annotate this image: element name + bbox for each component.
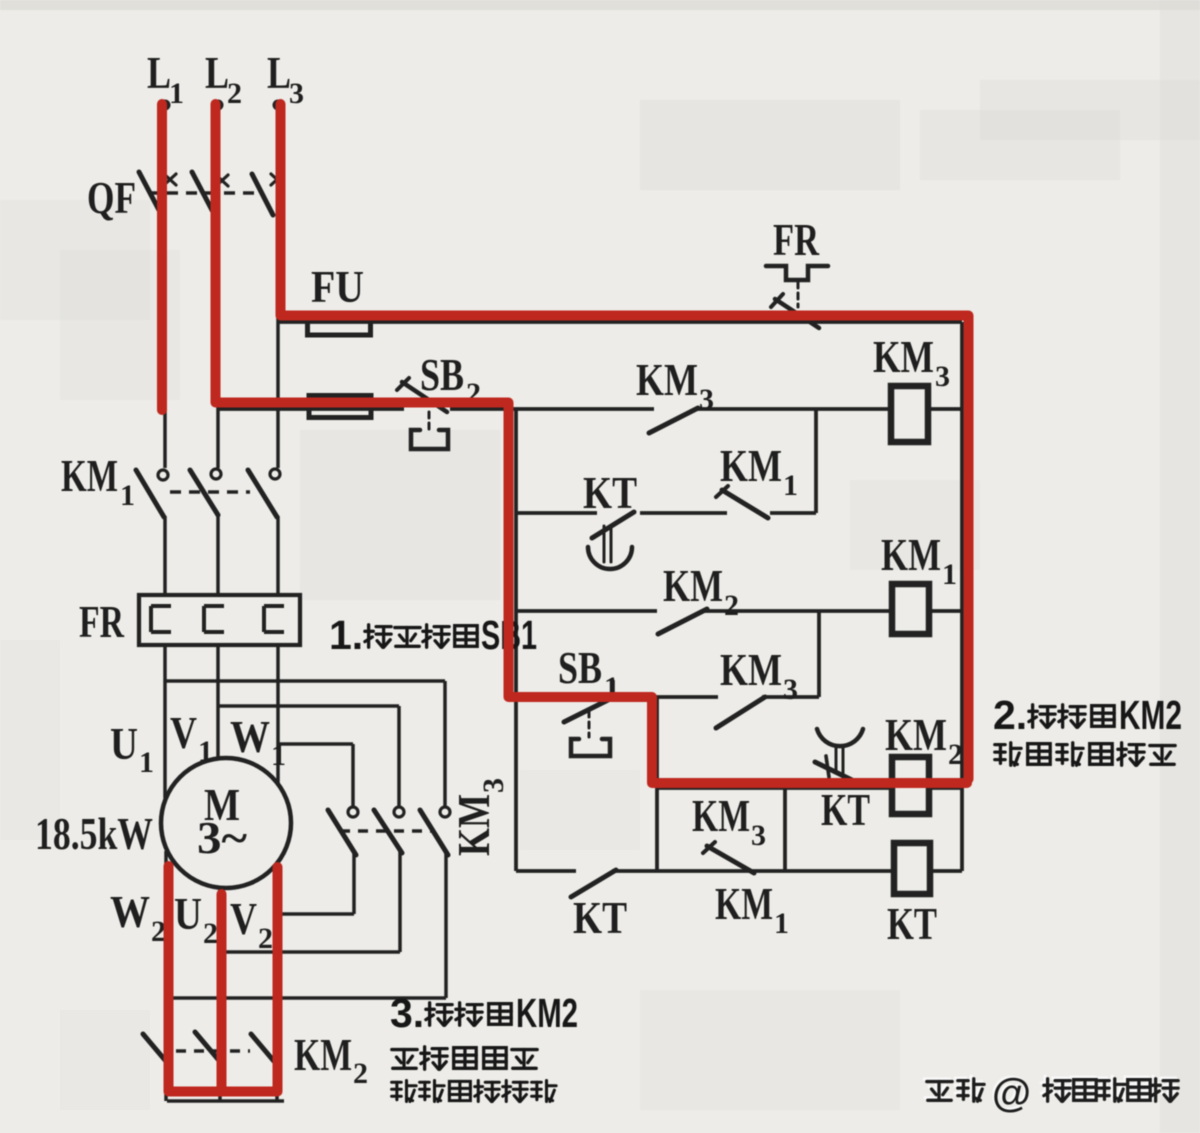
svg-text:KM: KM [448, 794, 499, 856]
svg-text:1: 1 [774, 907, 789, 940]
junction wire SB1 node down to rows A and B [655, 697, 659, 871]
top rung wire (L3 to right rail) [278, 320, 962, 324]
wire L3 QF to KM1 [276, 215, 280, 468]
wire W1 FR to motor [276, 645, 280, 783]
svg-text:FR: FR [773, 214, 820, 265]
thermal relay FR NC contact (top right) [766, 266, 828, 328]
wire L2 upper [216, 108, 220, 170]
wire KM3 pole2 to U2 [220, 950, 400, 954]
svg-text:3: 3 [935, 360, 950, 393]
svg-text:KT: KT [887, 898, 937, 949]
svg-text:KM: KM [720, 440, 782, 491]
annotation 3: KM2 main contacts close star connection [390, 990, 578, 1102]
wire V2 down [275, 865, 279, 1101]
contactor KM3 (motor) pole 2 [374, 807, 404, 853]
wire L2 QF to KM1 [216, 212, 220, 468]
contactor KM1 pole 3 [248, 469, 280, 517]
coil KM1 [892, 584, 929, 634]
svg-text:KM: KM [294, 1029, 352, 1080]
wire U2 down [218, 888, 222, 1101]
pushbutton SB1 (start, NO) [564, 681, 613, 756]
junction wire rowA-rowB [783, 788, 787, 871]
watermark toutiao [924, 1069, 1178, 1115]
red highlight path L3 along top rung down right rail [281, 104, 969, 779]
svg-text:KM: KM [720, 644, 782, 695]
svg-text:KM2: KM2 [1119, 692, 1182, 738]
contact KM1 NC (row2) [716, 486, 768, 518]
svg-text:2: 2 [258, 922, 273, 955]
motor M circle [161, 758, 291, 888]
contact KM2 NO (row3) [658, 609, 707, 634]
junction wire row1-row2 [814, 409, 818, 513]
svg-text:2: 2 [227, 77, 242, 110]
FR heater element 1 [151, 606, 171, 632]
contactor KM1 linkage dashed [170, 490, 250, 494]
svg-text:3.: 3. [390, 990, 424, 1036]
svg-text:KT: KT [583, 467, 637, 518]
annotation 1: press button SB1 [329, 612, 537, 658]
coil KM2 [892, 757, 929, 814]
wire tap V1 to middle column [218, 704, 399, 708]
svg-text:L: L [205, 47, 229, 98]
annotation 2: contactor KM2 coil energized [993, 692, 1182, 765]
contactor KM2 (bottom) pole 1 [143, 1034, 170, 1066]
row1 wire: L2 tap through FU2 SB2 to KM3 coil [218, 407, 962, 411]
svg-text:3: 3 [477, 778, 510, 793]
red highlight path L2 through FU2 SB2 down left rail to SB1 node and KM2 coil row [216, 104, 968, 783]
svg-text:KM: KM [715, 878, 773, 929]
contact KM3 NC (rowB) [703, 842, 754, 873]
svg-text:W: W [110, 886, 150, 937]
svg-text:U: U [174, 888, 202, 939]
contact KM3 NO (row1) [649, 408, 698, 433]
svg-text:KM: KM [636, 354, 698, 405]
wire L1 QF to KM1 [163, 212, 167, 468]
svg-text:1: 1 [271, 739, 286, 772]
svg-text:L: L [147, 47, 171, 98]
svg-text:@: @ [992, 1071, 1031, 1115]
svg-text:1: 1 [120, 479, 135, 512]
junction wire row3-row4 [817, 611, 821, 697]
svg-text:2.: 2. [993, 692, 1027, 738]
breaker QF linkage dashed [148, 191, 262, 195]
time relay KT delayed contact (row2) [588, 512, 634, 569]
row2 wire: KT delayed and KM1 NC [516, 511, 816, 515]
svg-text:KM: KM [663, 560, 723, 611]
coil KM3 [891, 386, 928, 442]
breaker QF pole 2 [192, 172, 228, 212]
breaker QF pole 3 [252, 174, 283, 215]
fuse FU1 [308, 320, 371, 335]
svg-text:3: 3 [699, 383, 714, 416]
wire L3 upper [276, 108, 280, 172]
red highlight star connection W2-U2-V2 [169, 866, 278, 1092]
left rail wire [514, 409, 518, 871]
contactor KM2 (bottom) pole 2 [195, 1032, 222, 1064]
svg-text:1: 1 [783, 469, 798, 502]
svg-text:2: 2 [948, 738, 963, 771]
wire W2 down [164, 851, 168, 1101]
wire column from U1 tap down [443, 681, 447, 807]
FR heater element 2 [204, 606, 224, 632]
terminal L2 [213, 100, 224, 111]
svg-text:3: 3 [783, 673, 798, 706]
wire L1 upper [163, 108, 167, 170]
svg-text:FU: FU [311, 261, 364, 312]
svg-text:KM: KM [61, 450, 118, 501]
star point bus bar [167, 1099, 284, 1103]
terminal L1 [160, 100, 171, 111]
breaker QF pole 1 [139, 172, 176, 212]
wire U1 FR to motor [163, 645, 167, 798]
svg-text:KM: KM [692, 790, 750, 841]
svg-text:KT: KT [573, 892, 627, 943]
contactor KM1 pole 1 [136, 470, 168, 517]
svg-text:U: U [110, 718, 138, 769]
svg-text:18.5kW: 18.5kW [35, 808, 153, 859]
red highlight U2 branch [217, 894, 227, 1091]
svg-text:KM2: KM2 [516, 990, 578, 1036]
rowA wire: KT delayed-open to KM2 coil [657, 786, 962, 790]
wire tap W1 to left column [278, 742, 353, 746]
contact KM3 NO (row4) [716, 697, 765, 728]
wire KM3 pole3 bottom [444, 853, 448, 998]
svg-text:1.: 1. [329, 612, 363, 658]
svg-text:SB: SB [420, 349, 464, 400]
svg-text:2: 2 [353, 1057, 368, 1090]
svg-text:1: 1 [198, 735, 213, 768]
time relay KT delayed-open contact (rowA) [815, 729, 863, 782]
coil KT [894, 843, 930, 894]
red highlight path L1 [157, 104, 167, 410]
svg-text:KT: KT [821, 784, 870, 835]
svg-text:KM: KM [873, 331, 934, 382]
fuse FU2 [309, 396, 371, 418]
FR heater element 3 [264, 606, 284, 632]
row3 wire: KM2 NO to KM1 coil [516, 609, 962, 613]
svg-text:1: 1 [942, 558, 957, 591]
wire L3 KM1 to FR [276, 516, 280, 593]
right rail wire [960, 322, 964, 871]
wire L2 KM1 to FR [216, 514, 220, 593]
contactor KM3 (motor) pole 3 [420, 807, 450, 855]
wire column from W1 tap down [351, 744, 355, 807]
wire KM3 pole2 bottom [398, 851, 402, 952]
wire KM3 pole3 to W2 [166, 996, 446, 1000]
svg-text:1: 1 [139, 746, 154, 779]
wire tap U1 to right column [165, 679, 445, 683]
svg-text:FR: FR [79, 596, 125, 647]
contactor KM3 (motor) pole 1 [328, 807, 358, 855]
svg-text:KM: KM [881, 529, 941, 580]
svg-text:KM: KM [885, 709, 947, 760]
svg-text:SB: SB [558, 642, 602, 693]
terminal L3 [273, 100, 284, 111]
wire KM3 pole1 to V2 [277, 912, 354, 916]
label KM3 rotated (motor contactor) [448, 778, 510, 856]
svg-text:L: L [267, 47, 291, 98]
svg-text:V: V [230, 893, 257, 944]
contactor KM2 (bottom) pole 3 [251, 1034, 278, 1066]
wire KM3 pole1 bottom [352, 853, 356, 914]
contactor KM1 pole 2 [190, 469, 221, 515]
pushbutton SB2 (stop, NC) [397, 378, 448, 449]
wire column from V1 tap down [397, 706, 401, 807]
svg-text:3: 3 [751, 819, 766, 852]
row4 wire: SB1 and KM3 NO [516, 695, 819, 699]
svg-text:1: 1 [169, 77, 184, 110]
svg-text:QF: QF [87, 172, 136, 223]
wire L1 KM1 to FR [163, 516, 167, 593]
contactor KM2 (bottom) linkage dashed [176, 1049, 250, 1053]
svg-text:W: W [230, 711, 270, 762]
svg-text:2: 2 [203, 917, 218, 950]
wire V1 FR to motor [216, 645, 220, 758]
svg-text:3~: 3~ [197, 812, 247, 863]
contactor KM3 (motor) linkage dashed [340, 829, 432, 833]
rowB wire: KT NO, KM3 NC to KT coil [516, 869, 962, 873]
svg-text:V: V [170, 707, 197, 758]
svg-text:3: 3 [289, 77, 304, 110]
contact KT NO (rowB) [571, 870, 616, 897]
thermal relay FR box [139, 595, 300, 645]
svg-text:2: 2 [724, 589, 739, 622]
